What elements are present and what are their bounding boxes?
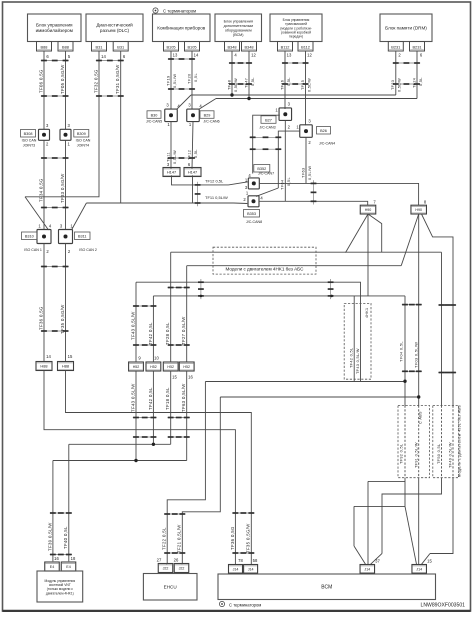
pins J14 78/58 (238, 558, 258, 563)
wire TF04/TF92 down (404, 296, 406, 406)
svg-text:H88: H88 (62, 364, 69, 369)
twisted-pair mark (164, 552, 186, 554)
connector E4 pin18 (61, 562, 76, 571)
svg-text:дополнительным: дополнительным (224, 24, 254, 28)
svg-text:B30: B30 (151, 113, 158, 117)
label TF03 0.5L/W (413, 342, 418, 368)
label TF48 (227, 80, 231, 90)
twisted-pair mark (250, 136, 282, 138)
twisted-pair mark (328, 279, 334, 299)
svg-text:TF48: TF48 (227, 80, 231, 90)
svg-text:B26: B26 (320, 129, 327, 133)
connector H88 pin14 (36, 362, 52, 371)
twisted-pair mark (232, 512, 254, 514)
svg-text:BCM: BCM (321, 584, 332, 590)
svg-text:TF20: TF20 (186, 73, 191, 84)
label B310 (22, 232, 42, 252)
svg-text:0,5L: 0,5L (193, 73, 198, 82)
label TF39 0.5L/W (47, 522, 52, 551)
svg-text:37: 37 (375, 559, 380, 564)
svg-text:TF04 0,5L: TF04 0,5L (399, 341, 404, 362)
wire TF49 continue (430, 478, 453, 554)
svg-text:TF28 0,5L: TF28 0,5L (165, 322, 170, 345)
svg-text:ISO CAN 2: ISO CAN 2 (79, 248, 97, 252)
twisted-pair mark (168, 417, 190, 419)
label TF12 (187, 150, 191, 160)
label TF34 0.5G (38, 178, 43, 202)
connector B105 pin14 (185, 42, 200, 52)
label TF42 0.5L (350, 348, 354, 368)
svg-text:TF05 0,5G/W: TF05 0,5G/W (60, 64, 65, 94)
label 0.5L/W (173, 150, 177, 164)
svg-text:TF22 0,5L: TF22 0,5L (162, 527, 167, 550)
box: Блок управления трансмиссией (270, 14, 322, 42)
svg-text:14: 14 (194, 52, 199, 57)
svg-text:TF39 0,5L/W: TF39 0,5L/W (47, 522, 52, 551)
wire B29 pin4 to bus2 (diagonal) (199, 99, 217, 110)
svg-text:(ВСМ): (ВСМ) (233, 33, 244, 37)
twisted-pair mark (198, 279, 204, 299)
wire TF28 0.5L (170, 252, 172, 362)
dashed wire TF91 0.5L/W (418, 406, 420, 478)
svg-text:0,5L/W: 0,5L/W (172, 74, 177, 88)
svg-text:14: 14 (46, 354, 51, 359)
connector H90 pin7 (360, 205, 376, 214)
label 0.5L/W (307, 78, 311, 92)
wire L2 (TF43 0.5L/W run) (136, 282, 361, 381)
label TF19 (165, 76, 170, 86)
svg-text:Блок памяти (DRM): Блок памяти (DRM) (385, 25, 427, 30)
wire TF05 0.5G/W (65, 51, 67, 129)
label TF05 0.5G/W (60, 64, 65, 94)
label TF12 0.5L (205, 179, 224, 184)
svg-text:0,5L/W: 0,5L/W (307, 166, 312, 180)
svg-text:С терминатором: С терминатором (163, 9, 196, 14)
svg-text:TF24: TF24 (412, 78, 416, 88)
svg-text:H147: H147 (167, 170, 176, 175)
junction pins (46, 123, 70, 147)
svg-text:H52: H52 (150, 365, 157, 369)
svg-text:TF40 0,5L: TF40 0,5L (63, 526, 68, 549)
pins H52 (138, 356, 193, 380)
svg-text:TF43 0,5L/W: TF43 0,5L/W (130, 383, 135, 412)
junction B309 ISO CAN JOINT4 (60, 129, 71, 140)
svg-text:TF27 0,5L/W: TF27 0,5L/W (181, 316, 186, 345)
wire TF23 0.5L/W (395, 51, 397, 95)
wire TF40 0.5L (68, 444, 70, 561)
pin 8 (424, 200, 427, 205)
label TF28 0.5L (165, 322, 170, 345)
node junction (230, 93, 250, 100)
svg-text:B231: B231 (391, 44, 400, 49)
svg-text:B348: B348 (227, 44, 236, 49)
label TF43 0.5L/W (356, 348, 360, 374)
svg-text:TF06 0,5G: TF06 0,5G (38, 69, 43, 93)
svg-text:0,5L: 0,5L (194, 149, 198, 158)
svg-text:Модели с двигателем 4JJ1 без A: Модели с двигателем 4JJ1 без ABS (458, 405, 462, 477)
dashed box 4JJ1 ABS (433, 406, 459, 478)
wire to B311 pin1 (diagonal) (72, 203, 87, 230)
pins H147 (167, 162, 191, 167)
svg-text:13: 13 (287, 53, 292, 58)
label TF06 0.5G (38, 69, 43, 93)
connector H88 pin15 (58, 362, 74, 371)
svg-text:разъем (DLC): разъем (DLC) (100, 28, 130, 33)
twisted-pair mark (195, 182, 201, 207)
svg-text:TF47: TF47 (244, 78, 248, 88)
label TF24 (412, 78, 416, 88)
label TF36 0.5G (38, 306, 43, 330)
svg-text:J/C-CAN4: J/C-CAN4 (319, 142, 335, 146)
label 0.5L (419, 77, 423, 86)
label TF20 (186, 73, 191, 84)
label B311 (75, 232, 97, 252)
wire ISO CAN branch (86, 202, 233, 204)
wire TF33 0.5G/W (65, 140, 67, 229)
svg-text:TF11 0,5L/W: TF11 0,5L/W (205, 195, 228, 200)
connector J14 pin15 (412, 565, 427, 574)
wire TF20 0.5L (191, 51, 193, 109)
svg-text:0,5L/W: 0,5L/W (173, 150, 177, 164)
svg-text:B310: B310 (25, 235, 34, 239)
twisted-pair mark (402, 370, 422, 372)
connector J14 pin78 (229, 565, 243, 574)
label B352 (254, 165, 274, 176)
svg-text:Комбинация приборов: Комбинация приборов (157, 25, 205, 30)
svg-text:B112: B112 (301, 44, 310, 49)
wire TF48 0.5L/W (231, 51, 233, 95)
connector B348 pin12 (242, 42, 257, 52)
label TF22 0.5L (162, 527, 167, 550)
svg-text:TF43 0,5L/W: TF43 0,5L/W (130, 311, 135, 340)
frame bottom heavy edge (3, 610, 471, 612)
junction B27 J/C-CAN3 (279, 108, 292, 121)
label TF16 (280, 80, 284, 90)
dashed wire TF92 0.5L (404, 406, 406, 478)
label B309 (74, 130, 91, 148)
wire TF04 branch to EHCU pin27 (205, 380, 406, 383)
drawing number (421, 603, 466, 609)
label TF11 0.5L/W (205, 195, 228, 200)
wire TF92 continue (404, 478, 406, 507)
svg-text:TF49 0,5L/W: TF49 0,5L/W (448, 442, 452, 468)
twisted-pair mark (164, 513, 186, 515)
svg-text:TF19: TF19 (165, 76, 170, 86)
wire TF19 0.5L/W (170, 51, 172, 109)
wire TF63 0.5L/W (305, 137, 307, 183)
connector I90 pin8 (411, 205, 427, 214)
twisted-pair mark (282, 83, 309, 85)
svg-text:J/C-CAN5: J/C-CAN5 (146, 119, 162, 123)
svg-text:13: 13 (173, 52, 178, 57)
svg-text:J/C-CAN7: J/C-CAN7 (258, 172, 274, 176)
svg-text:J22: J22 (179, 567, 185, 571)
wire TF12 0.5L to B352 (172, 176, 249, 185)
label TF36 0.5G (230, 526, 235, 550)
wire H90 to TF28 (diagonal) (346, 214, 369, 253)
label B30 (146, 111, 162, 124)
pin 15 (427, 559, 432, 564)
label 0.5L/W (172, 74, 177, 88)
label TF50 0.5L (437, 444, 441, 464)
wire I90 right branch (422, 214, 454, 406)
twisted-pair mark (393, 62, 421, 64)
label TF33 0.5G/W (60, 173, 65, 203)
wire TF50 continue (382, 478, 442, 554)
svg-text:0,5L/W: 0,5L/W (307, 78, 311, 92)
twisted-pair mark (50, 512, 72, 514)
label C ABS (418, 411, 422, 424)
svg-text:E4: E4 (66, 565, 70, 569)
wire y506 link (354, 505, 405, 507)
twisted-pair mark (133, 344, 157, 346)
wire TF31 0.5G/W (120, 51, 122, 203)
label 0.5L (286, 177, 291, 186)
wire to B310 pin4 (diagonal) (25, 197, 49, 230)
svg-text:TF32 0,5G: TF32 0,5G (93, 69, 98, 93)
junction B30 J/C-CAN5 (165, 109, 178, 122)
svg-text:JOINT4: JOINT4 (77, 143, 89, 147)
wire TF24 0.5L (416, 51, 418, 99)
label B353 (244, 210, 263, 225)
twisted-pair mark (50, 554, 72, 556)
svg-text:JOINT3: JOINT3 (23, 143, 35, 147)
wire H88-14 to J14-78 (44, 370, 235, 564)
wire TF32 0.5G (25, 51, 99, 197)
box: Блок памяти (DRM) (380, 14, 432, 42)
svg-text:TF12 0,5L: TF12 0,5L (205, 179, 224, 184)
wire TF11 0.5L/W (170, 122, 172, 169)
svg-text:TF11: TF11 (166, 152, 170, 162)
wire TF47 0.5L (248, 51, 250, 99)
svg-text:J/C-CAN8: J/C-CAN8 (246, 220, 262, 224)
junction B29 J/C-CAN6 (187, 109, 200, 122)
connector E4 pin16 (45, 562, 60, 571)
label TF35 0.5G/W (60, 304, 65, 334)
svg-text:TF91 0,5L/W: TF91 0,5L/W (414, 442, 418, 468)
pin 37 (375, 559, 380, 564)
connector B31 pin14 (92, 42, 107, 52)
twisted-pair mark (232, 552, 254, 554)
connector H147 pin6 (184, 168, 201, 177)
svg-text:TF64: TF64 (280, 179, 285, 190)
svg-text:TF21 0,5L/W: TF21 0,5L/W (177, 524, 182, 553)
pins H88 (46, 354, 73, 359)
wire down to TF21 (182, 397, 220, 564)
svg-text:B105: B105 (187, 44, 196, 49)
connector B31 pin6 (113, 42, 128, 52)
svg-text:B88: B88 (41, 44, 48, 49)
terminator note (top) (153, 8, 196, 14)
junction B352 J/C-CAN7 (248, 178, 259, 189)
wire L3 (TF42 0.5L run) (153, 295, 405, 297)
connector J14 pin58 (244, 565, 258, 574)
wire jog TF21 (181, 563, 184, 566)
svg-text:B27: B27 (265, 118, 272, 122)
dashed wire TF50 0.5L (441, 406, 443, 478)
wire L1b to TF27 (187, 265, 402, 267)
wire TF16 0.5L (284, 51, 286, 109)
wire B26 pin1 to B353 (256, 131, 300, 196)
funnel diagonal to J14-15 left (405, 506, 417, 564)
svg-text:TF18 0,5L: TF18 0,5L (165, 387, 170, 410)
twisted-pair mark (168, 436, 190, 438)
label TF23 (391, 80, 395, 90)
label TF32 0.5G (93, 69, 98, 93)
svg-text:0,5L: 0,5L (251, 77, 255, 86)
wire TF12 0.5L (192, 122, 193, 169)
svg-text:18: 18 (71, 556, 76, 561)
svg-text:16: 16 (188, 375, 193, 380)
label TF15 (301, 80, 305, 90)
svg-text:TF23: TF23 (391, 80, 395, 90)
svg-text:J14: J14 (233, 567, 239, 571)
twisted-pair mark (168, 157, 195, 159)
wire TF03 branch to EHCU pin26 (220, 395, 420, 398)
svg-text:0,5L: 0,5L (287, 77, 291, 86)
label 0.5L (251, 77, 255, 86)
label TF04 0.5L (399, 341, 404, 362)
junction pins (243, 173, 263, 202)
twisted-pair mark (96, 95, 124, 97)
wire B352 pin4 run to I90 (259, 183, 418, 205)
svg-text:TF63: TF63 (300, 168, 305, 178)
svg-text:0,5L/W: 0,5L/W (398, 78, 402, 92)
wire I90 to TF27 (diagonal) (401, 214, 419, 266)
svg-text:EHCU: EHCU (164, 584, 177, 589)
junction B308 ISO CAN JOINT3 (39, 129, 50, 140)
label TF35 0.5G/W (246, 523, 251, 553)
junction pins (166, 103, 202, 128)
label TF43 0.5L/W (130, 311, 135, 340)
svg-text:TF33 0,5G/W: TF33 0,5G/W (60, 173, 65, 203)
svg-text:15: 15 (427, 559, 432, 564)
wire TF35 0.5G/W (65, 244, 67, 362)
label 4HK1 (365, 308, 369, 318)
wire H88-15 to J14-58 (66, 370, 252, 564)
svg-text:B112: B112 (281, 44, 290, 49)
connector B231 pin2 (388, 42, 403, 52)
svg-text:ISO CAN 1: ISO CAN 1 (24, 248, 42, 252)
wire jog TF22 (166, 563, 168, 566)
label 0.5L (193, 73, 198, 82)
connector H147 pin3 (163, 168, 180, 177)
wire H90 center upper (367, 214, 369, 296)
label TF91 0.5L/W (414, 442, 418, 468)
connector J22 pin27 (158, 564, 173, 573)
svg-text:TF35 0,5G/W: TF35 0,5G/W (246, 523, 251, 553)
bus wire CAN (lower) (216, 98, 417, 100)
twisted-pair mark (168, 58, 195, 60)
label Модели с двигателем 4JJ1 без ABS (458, 405, 462, 477)
label TF63 0.5L/W (181, 383, 186, 412)
box: BCM (218, 574, 436, 600)
twisted-pair mark (41, 95, 69, 97)
svg-text:J22: J22 (163, 567, 169, 571)
connector B88 pin5 (58, 42, 73, 52)
svg-text:26: 26 (174, 558, 179, 563)
funnel diagonal to J14-37 right (371, 554, 383, 565)
box: EHCU (143, 574, 197, 601)
svg-text:TF12: TF12 (187, 150, 191, 160)
wire TF63 0.5L/W (lower) (186, 371, 188, 461)
twisted-pair mark (41, 330, 69, 332)
wire TF18 0.5L (170, 371, 172, 444)
pins J22 (157, 558, 179, 563)
twisted-pair mark (229, 62, 252, 64)
svg-text:H52: H52 (183, 365, 190, 369)
svg-text:TF34 0,5G: TF34 0,5G (38, 178, 43, 202)
twisted-pair mark (41, 60, 69, 62)
twisted-pair mark (168, 88, 195, 90)
svg-text:15: 15 (68, 354, 73, 359)
dashed box 4HK1 alternative wiring (344, 303, 371, 379)
svg-text:ISO CAN: ISO CAN (76, 139, 91, 143)
box: Модуль управления системой VNT (37, 571, 83, 602)
label TF64 (280, 179, 285, 190)
wire y481 link (368, 480, 405, 482)
wire TF39 0.5L/W (52, 461, 54, 562)
svg-text:B353: B353 (247, 212, 256, 216)
connector H52 pin9 (129, 362, 144, 371)
wire L1 to TF28 (171, 251, 442, 253)
label B308 (21, 130, 37, 148)
wire TF34 0.5G (43, 140, 45, 229)
svg-text:TF16: TF16 (280, 80, 284, 90)
svg-text:TF35 0,5G/W: TF35 0,5G/W (60, 304, 65, 334)
svg-text:оборудованием: оборудованием (225, 29, 252, 33)
terminator note (bottom) (219, 601, 261, 607)
twisted-pair mark (168, 287, 190, 289)
label TF27 0.5L/W (181, 316, 186, 345)
svg-text:10: 10 (154, 356, 159, 361)
twisted-pair mark (41, 207, 69, 209)
svg-text:TF03 0,5L/W: TF03 0,5L/W (413, 342, 418, 368)
connector H52 pin10 (146, 362, 161, 371)
svg-text:H52: H52 (167, 365, 174, 369)
svg-text:TF92 0,5L: TF92 0,5L (400, 444, 404, 464)
label TF42 0.5L (148, 387, 153, 410)
funnel diagonal to J14-37 (354, 546, 366, 564)
svg-text:С терминатором: С терминатором (229, 602, 261, 607)
svg-text:B105: B105 (166, 44, 175, 49)
svg-text:16: 16 (54, 556, 59, 561)
label 0.5L/W (307, 166, 312, 180)
twisted-pair mark (96, 60, 124, 62)
wire TF27 0.5L/W (186, 266, 188, 363)
wire B353 pin4 run to H90 (259, 201, 368, 205)
svg-text:передач): передач) (289, 35, 303, 39)
svg-text:TF36 0,5G: TF36 0,5G (230, 526, 235, 550)
connector H52 pin15 (163, 362, 178, 371)
funnel diagonal to J14-15 right (422, 554, 431, 565)
label TF63 (300, 168, 305, 178)
twisted-pair mark (438, 372, 456, 374)
svg-text:H88: H88 (40, 364, 47, 369)
twisted-pair mark (250, 148, 282, 150)
svg-text:B352: B352 (257, 167, 266, 171)
svg-text:0,5L: 0,5L (286, 177, 291, 186)
label B29 (200, 111, 220, 124)
connector B105 pin13 (164, 42, 179, 52)
pin 7 (373, 200, 376, 205)
wire B30 pin4 to bus1 (diagonal) (177, 95, 192, 110)
twisted-pair mark (393, 83, 421, 85)
junction B353 J/C-CAN8 (248, 196, 259, 207)
svg-text:J/C-CAN6: J/C-CAN6 (203, 119, 219, 123)
label TF43 0.5L/W (130, 383, 135, 412)
svg-text:27: 27 (157, 558, 162, 563)
